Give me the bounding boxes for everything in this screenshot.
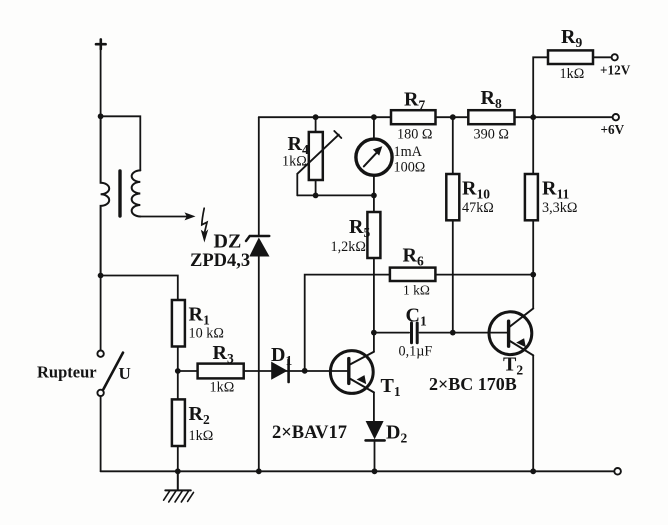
svg-text:1kΩ: 1kΩ (560, 66, 585, 82)
svg-text:Rupteur: Rupteur (37, 363, 97, 382)
node R8 R9 R11 junction (530, 114, 536, 120)
wire T2 base (453, 332, 507, 334)
wire T1 emitter to D2 (373, 392, 375, 421)
zener diode DZ (258, 117, 260, 236)
diode D2 (366, 421, 384, 439)
resistor R5 (367, 212, 380, 258)
resistor R1 (172, 300, 185, 347)
capacitor C1 (374, 332, 409, 334)
spark lightning bolt (202, 208, 207, 231)
wire R4 top stub (315, 117, 317, 132)
wire R9 corner (533, 57, 548, 117)
terminal +6V (613, 114, 619, 120)
resistor R11 (525, 174, 538, 220)
node R6 R11 junction (530, 272, 536, 278)
wire meter bottom stub (373, 175, 375, 212)
svg-text:ZPD4,3: ZPD4,3 (190, 251, 250, 271)
svg-text:0,1µF: 0,1µF (399, 344, 433, 360)
svg-text:3,3kΩ: 3,3kΩ (542, 200, 577, 216)
node left-mid junction (98, 273, 104, 279)
wire R2 to rail (177, 446, 179, 471)
wire T2 emitter to rail (532, 355, 534, 471)
node T2 rail (530, 468, 536, 474)
resistor R9 (548, 50, 593, 64)
node D1 T1 base junction (302, 368, 308, 374)
resistor R7 (391, 110, 436, 124)
resistor R4 (preset) (309, 132, 323, 180)
wire + down to node (100, 50, 102, 117)
node R7 R8 R10 junction (450, 114, 456, 120)
resistor R6 (390, 268, 436, 281)
node C1 left (371, 330, 377, 336)
node top-left junction (98, 113, 104, 119)
svg-text:47kΩ: 47kΩ (462, 200, 494, 216)
wire node to R2 (177, 371, 179, 399)
meter M (1mA) (356, 139, 392, 175)
svg-text:1mA: 1mA (394, 144, 423, 160)
switch contact top (97, 351, 103, 357)
svg-text:1kΩ: 1kΩ (210, 380, 235, 396)
wire secondary bottom with arrow (140, 216, 188, 218)
resistor R2 (172, 399, 185, 446)
svg-text:1,2kΩ: 1,2kΩ (331, 239, 366, 255)
svg-text:390 Ω: 390 Ω (474, 127, 509, 143)
wire D2 to rail (374, 440, 376, 471)
svg-text:10 kΩ: 10 kΩ (189, 326, 224, 342)
wire top rail (259, 116, 613, 118)
ground (165, 471, 191, 490)
wire switch to bottom rail (100, 396, 102, 471)
wire R10 line (452, 117, 454, 332)
diode D1 (271, 362, 287, 380)
svg-text:1kΩ: 1kΩ (282, 154, 307, 170)
svg-text:1kΩ: 1kΩ (189, 428, 214, 444)
transistor T1 (330, 351, 373, 394)
svg-text:+6V: +6V (601, 122, 625, 137)
terminal bottom right (614, 468, 621, 475)
resistor R8 (468, 110, 514, 124)
transistor T2 (489, 312, 532, 355)
wire R6 branch down (305, 275, 390, 371)
svg-text:100Ω: 100Ω (394, 160, 426, 176)
wire R5 to T1 collector (373, 258, 375, 352)
svg-text:U: U (119, 364, 131, 383)
wire R6 right to R11 line (435, 274, 533, 276)
node R4 bottom (313, 193, 319, 199)
svg-text:2×BAV17: 2×BAV17 (272, 423, 347, 443)
node meter bottom (371, 193, 377, 199)
wire R4 bottom stub (315, 180, 317, 195)
node R1 R2 R3 junction (175, 368, 181, 374)
node DZ rail (256, 468, 262, 474)
resistor R3 (198, 364, 244, 379)
wire R4 bottom to meter bottom (297, 194, 374, 196)
wire R3 row (178, 370, 348, 372)
wire node to R1 top (101, 276, 178, 301)
svg-text:180 Ω: 180 Ω (397, 127, 432, 143)
node meter top (371, 114, 377, 120)
wire R9 to +12V (593, 56, 612, 58)
wire meter top stub (373, 117, 375, 139)
wire R11 line (532, 117, 534, 308)
wire left line to switch (100, 276, 102, 351)
terminal + (battery plus) (96, 39, 106, 49)
node R4 top (313, 114, 319, 120)
wire bottom rail (101, 470, 615, 472)
svg-text:1 kΩ: 1 kΩ (403, 283, 430, 298)
transformer primary coil (101, 116, 110, 275)
node R2 rail (175, 468, 181, 474)
terminal +12V (612, 54, 618, 60)
svg-text:+12V: +12V (600, 63, 631, 78)
node C1 right R10 T2 base junction (450, 330, 456, 336)
svg-text:DZ: DZ (214, 231, 242, 253)
node D2 rail (372, 468, 378, 474)
svg-text:2×BC 170B: 2×BC 170B (429, 374, 517, 394)
switch blade (103, 353, 123, 390)
wire R1 to node (177, 347, 179, 372)
switch contact bottom (97, 390, 103, 396)
resistor R10 (446, 174, 459, 220)
transformer secondary coil (132, 170, 141, 216)
transformer core (118, 171, 121, 216)
wire node to secondary top (101, 116, 141, 170)
